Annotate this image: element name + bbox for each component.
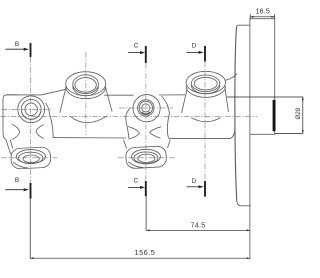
right tower left flank xyxy=(182,89,187,113)
middle port boss lower arc xyxy=(142,112,150,114)
middle port boss circle ring xyxy=(138,100,154,116)
middle waist chevron left xyxy=(128,127,139,139)
svg-text:D: D xyxy=(192,178,197,185)
section line C vertical xyxy=(145,63,147,181)
central tower inner hole xyxy=(75,78,96,93)
flange face / extension vertical line xyxy=(249,19,251,259)
middle port boss circle outer xyxy=(133,95,160,122)
section marker C bottom xyxy=(128,178,146,197)
section marker B bottom xyxy=(5,177,30,199)
middle cluster left edge xyxy=(126,108,130,138)
dimension 16.5 xyxy=(250,8,274,18)
bore seal black bar xyxy=(273,100,276,131)
middle port boss circle inner xyxy=(142,104,150,112)
rear boss rectangle right edge xyxy=(274,19,276,135)
left port boss circle inner xyxy=(25,103,37,115)
right tower right flank xyxy=(225,88,229,112)
middle outlet ring outer xyxy=(132,149,161,164)
left outlet hole xyxy=(23,155,39,163)
rear boss rectangle bottom xyxy=(250,133,275,135)
section marker B top xyxy=(5,41,30,57)
bore horizontal center line xyxy=(1,115,258,117)
left port boss circle mid xyxy=(21,99,41,119)
dimension 156.5 xyxy=(30,199,250,260)
left port boss circle outer xyxy=(18,96,45,123)
middle outlet pad outline xyxy=(125,146,166,169)
central tower vertical center line xyxy=(85,52,87,135)
section marker D bottom xyxy=(187,178,206,197)
right tower inner hole xyxy=(194,77,217,90)
section line B vertical xyxy=(30,57,32,183)
section marker C top xyxy=(128,43,146,63)
body bottom edge right xyxy=(169,137,229,139)
section marker D top xyxy=(187,43,206,62)
middle pad left flank xyxy=(124,140,127,148)
svg-text:B: B xyxy=(15,177,19,184)
body bottom edge left-middle xyxy=(53,137,126,139)
central tower base arc xyxy=(70,116,107,123)
left waist chevron left xyxy=(12,125,20,140)
dimension diameter 28 xyxy=(227,97,304,133)
central tower rim lower arc xyxy=(66,87,106,99)
dimension 74.5 xyxy=(146,196,250,231)
left outlet ring outer xyxy=(16,150,45,164)
central tower opening ellipse xyxy=(73,75,99,94)
svg-text:D: D xyxy=(192,43,197,50)
svg-text:74.5: 74.5 xyxy=(191,222,206,229)
middle outlet ring mid xyxy=(134,152,158,164)
middle outlet hole xyxy=(138,154,155,162)
central tower left flank xyxy=(60,88,66,113)
left pad left flank xyxy=(10,140,12,148)
right tower rim outer ellipse xyxy=(186,71,225,93)
body top edge middle segment xyxy=(105,94,134,96)
middle pad horizontal center line xyxy=(118,157,176,159)
right tower rim lower arc xyxy=(186,86,225,97)
svg-text:C: C xyxy=(134,43,139,50)
left outlet ring mid xyxy=(19,152,43,163)
left cluster right edge xyxy=(46,103,53,137)
left outlet pad outline xyxy=(11,147,52,169)
section line D vertical xyxy=(204,62,206,182)
center lines xyxy=(1,52,258,183)
middle cluster right edge xyxy=(162,97,170,139)
svg-text:156.5: 156.5 xyxy=(135,248,156,257)
svg-text:16.5: 16.5 xyxy=(256,8,270,15)
central tower rim outer ellipse xyxy=(66,72,106,96)
body top edge right segment xyxy=(159,94,184,96)
left waist chevron right xyxy=(36,125,44,139)
middle port boss circle ring2 xyxy=(139,101,152,114)
flange disc top edge xyxy=(237,25,250,27)
flange disc bottom corner and edge xyxy=(237,200,251,206)
middle boss horizontal center line xyxy=(119,107,173,109)
left pad horizontal center line xyxy=(2,157,58,159)
left boss horizontal center line xyxy=(2,108,53,110)
central tower right flank xyxy=(106,87,113,111)
svg-text:C: C xyxy=(133,178,138,185)
body top edge left segment xyxy=(7,89,66,95)
right tower opening lower arc xyxy=(191,85,219,93)
rear boss rectangle top xyxy=(250,18,275,20)
flange disc left edge xyxy=(235,27,237,200)
rim to flange connecting curve xyxy=(225,74,237,81)
left outlet pad inner edge xyxy=(14,163,29,169)
svg-text:B: B xyxy=(15,41,19,48)
body to flange fillet xyxy=(229,128,235,138)
left port boss lower arc xyxy=(22,112,41,120)
right tower base arc xyxy=(192,118,221,122)
body left end outline xyxy=(3,95,18,154)
middle pad right flank xyxy=(168,140,171,148)
middle waist chevron right xyxy=(150,127,161,138)
middle outlet pad inner edge xyxy=(129,162,144,168)
central tower opening lower arc xyxy=(73,86,99,95)
svg-text:Ø28: Ø28 xyxy=(295,107,302,119)
right tower opening ellipse xyxy=(191,75,219,92)
